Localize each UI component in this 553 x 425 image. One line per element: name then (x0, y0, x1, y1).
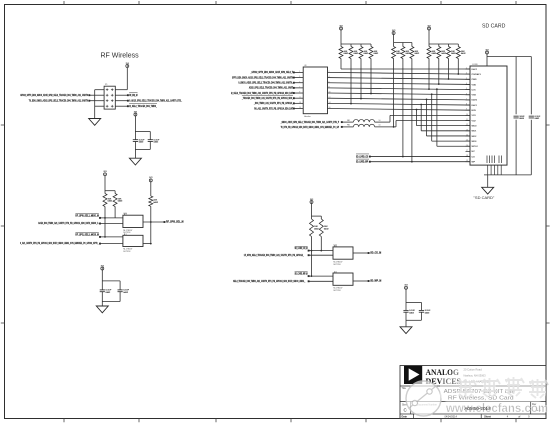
date and sheet row (402, 415, 531, 418)
svg-text:12: 12 (466, 124, 468, 126)
svg-text:0402: 0402 (154, 142, 159, 144)
wire net row2 long label (CD) (244, 253, 333, 257)
svg-text:CMD: CMD (472, 79, 477, 81)
svg-text:SD_CARD_CD_M: SD_CARD_CD_M (295, 247, 308, 250)
wire group2 leads down (394, 59, 413, 163)
svg-text:P1: P1 (105, 84, 108, 86)
svg-text:15: 15 (466, 140, 468, 142)
svg-text:CD/DAT3: CD/DAT3 (472, 73, 482, 76)
title text (402, 387, 516, 402)
capacitor C3 (100, 290, 112, 294)
power symbol VDD (RF header) (126, 63, 129, 68)
connector P1 RF header 2x4 (104, 84, 115, 109)
svg-text:3V3: 3V3 (427, 25, 430, 27)
svg-text:AD15_SPI2_SEL2_TRACE0_D04_TMR0: AD15_SPI2_SEL2_TRACE0_D04_TMR0_A21_UART (249, 86, 293, 90)
wire header rows 1 and 4 left to ground (95, 90, 104, 119)
svg-text:0_A21_UART0_RTS_PB_GPIO14_SD0_: 0_A21_UART0_RTS_PB_GPIO14_SD0_DAT2_SMC0_… (20, 241, 99, 245)
svg-text:1: 1 (126, 234, 127, 236)
svg-text:0_SMC0_AD15_SPI2_SEL2_TRACE0_D: 0_SMC0_AD15_SPI2_SEL2_TRACE0_D04_TMR0_A2… (238, 81, 293, 85)
svg-text:10: 10 (466, 114, 468, 116)
svg-text:17: 17 (466, 150, 468, 152)
svg-text:C: C (404, 408, 407, 413)
svg-text:VSS: VSS (472, 95, 477, 97)
power symbol (SD pullups group3) (427, 25, 430, 30)
svg-text:18: 18 (466, 155, 468, 157)
wire group3 leads to bus (428, 59, 459, 91)
power symbol (pullups U10/U11) (103, 171, 106, 176)
svg-text:I2_SEL2_TRACE0_D04_TMR0_A21_UA: I2_SEL2_TRACE0_D04_TMR0_A21_UART0_RTS_PB… (231, 91, 293, 95)
svg-text:WCLK: WCLK (472, 146, 479, 148)
wire net SD row1 (250, 70, 303, 74)
Analog Devices logo (404, 366, 422, 384)
svg-text:0805: 0805 (519, 118, 524, 120)
svg-text:SOT353: SOT353 (123, 251, 130, 253)
svg-text:3V3: 3V3 (485, 49, 488, 51)
wire cap bracket (bottom-right) (406, 289, 421, 327)
wire net row3 SD_WP_M (295, 272, 333, 277)
wire staircase to SD socket lower pins (416, 88, 470, 146)
wire power to header pin row1 right (115, 68, 127, 90)
pullup group1 resistors R20-R23 (339, 30, 379, 59)
svg-text:15: 15 (299, 107, 301, 109)
wire net SD row5 (231, 91, 303, 95)
svg-text:T0_RTS_PB_GPIO14_SD0_DAT2_SMC0: T0_RTS_PB_GPIO14_SD0_DAT2_SMC0_AMS1_SYS_… (281, 125, 340, 129)
svg-text:0402: 0402 (461, 53, 466, 55)
svg-text:of: of (518, 415, 520, 418)
buffer U10 (123, 213, 143, 234)
power symbol (CD/WP pullups) (310, 199, 313, 204)
svg-text:VD2: VD2 (472, 120, 477, 122)
svg-text:DAT1: DAT1 (472, 104, 478, 107)
svg-text:U12: U12 (333, 245, 336, 247)
svg-text:10: 10 (379, 125, 381, 127)
svg-text:10: 10 (379, 120, 381, 122)
svg-text:T0_BD0_SMC0_AD15_SPI2_SEL2_TRA: T0_BD0_SMC0_AD15_SPI2_SEL2_TRACE0_D04_TM… (29, 99, 89, 103)
title block frame (400, 366, 546, 419)
svg-text:16: 16 (466, 145, 468, 147)
wire net RF MOSI into header row2 left (20, 93, 104, 97)
svg-text:4: 4 (466, 83, 467, 85)
svg-text:WD0: WD0 (472, 125, 478, 127)
ground (SD socket) (482, 187, 494, 194)
wire net RF MISO into header row3 left (29, 99, 104, 103)
wire net VDAT2 with ferrite bead FB1 (280, 115, 470, 124)
svg-text:12: 12 (329, 97, 331, 99)
svg-text:I2_SEL2_TRACE0_D04_TMR0_: I2_SEL2_TRACE0_D04_TMR0_ (129, 104, 157, 108)
power symbol (bottom-right cap) (404, 285, 407, 290)
svg-text:CON9: CON9 (472, 64, 478, 66)
wire net RF_SPI_SEL header row2 right (115, 93, 137, 98)
svg-text:Header: Header (304, 116, 311, 118)
wire cap bracket (RF decoupling) (135, 116, 150, 158)
connector CON9 SD card socket (466, 64, 508, 165)
capacitor C5 10UF (514, 116, 526, 120)
svg-text:RSV: RSV (472, 110, 477, 112)
svg-text:14: 14 (329, 102, 331, 104)
power symbol (RF decoupling) (134, 111, 137, 116)
svg-text:2: 2 (466, 73, 467, 75)
svg-text:RF Wireless: RF Wireless (101, 53, 140, 60)
wire net RF SPT right row3 (115, 99, 182, 103)
svg-text:_SMC0_AD15_SPI2_SEL2_TRACE0_D0: _SMC0_AD15_SPI2_SEL2_TRACE0_D04_TMR0_A21… (280, 120, 339, 124)
svg-text:3V3: 3V3 (126, 63, 129, 65)
wire R32 lead to row1 (320, 237, 322, 252)
svg-text:R0_A21_UART0_RTS_PB_GPIO14_SD0: R0_A21_UART0_RTS_PB_GPIO14_SD0_DAT (254, 106, 293, 110)
svg-text:0402: 0402 (415, 53, 420, 55)
svg-text:3V3: 3V3 (101, 265, 104, 267)
svg-text:CD: CD (472, 156, 476, 158)
svg-text:7: 7 (299, 86, 300, 88)
pullup group2 resistors R24-R26 (392, 35, 420, 59)
svg-text:ACE0_D04_TMR0_A21_UART0_RTS_PB: ACE0_D04_TMR0_A21_UART0_RTS_PB_GPIO14_SD… (38, 221, 98, 225)
svg-text:0402: 0402 (106, 292, 111, 294)
wire net SD row8 (254, 106, 303, 110)
svg-text:04/04/2014: 04/04/2014 (444, 415, 457, 418)
svg-text:WD3: WD3 (472, 141, 478, 143)
resistor R10 10K (103, 194, 113, 207)
svg-text:RF_IRQ_M: RF_IRQ_M (129, 94, 137, 97)
svg-text:VDD: VDD (472, 84, 477, 86)
svg-text:0402: 0402 (139, 142, 144, 144)
buffer U12 (333, 245, 353, 266)
connector J8 header (SD interface) (303, 65, 327, 118)
watermark www.elecfans.com (445, 401, 548, 415)
power symbol (SD pullups group2) (392, 30, 395, 35)
svg-text:_D04_TMR0_A21_UART0_RTS_PB_GPI: _D04_TMR0_A21_UART0_RTS_PB_GPIO14_ (253, 101, 293, 105)
svg-text:SD_CD_M: SD_CD_M (370, 252, 381, 255)
svg-text:19: 19 (466, 160, 468, 162)
svg-text:J8: J8 (304, 65, 307, 67)
power symbol (pullup R12) (149, 177, 152, 182)
wire net row2 long label (38, 221, 123, 225)
power symbol (SD socket VDD) (485, 49, 488, 54)
svg-text:0402: 0402 (535, 118, 540, 120)
svg-text:Sheet: Sheet (484, 415, 491, 418)
svg-text:FB2: FB2 (347, 125, 350, 127)
svg-text:DAT2: DAT2 (472, 68, 478, 71)
svg-text:0402: 0402 (123, 292, 128, 294)
svg-text:RF_SPI1_SEL2_MOSI_M: RF_SPI1_SEL2_MOSI_M (75, 233, 98, 236)
wire U11 output loop (143, 222, 152, 245)
svg-text:0402: 0402 (324, 228, 329, 230)
svg-text:GPIO2_SPT0_BD0_SMC0_AD15_SPI2_: GPIO2_SPT0_BD0_SMC0_AD15_SPI2_SEL2_TRACE… (20, 93, 88, 97)
svg-text:0402: 0402 (108, 201, 113, 203)
svg-text:FB1: FB1 (347, 120, 350, 122)
capacitor C4 (118, 290, 130, 294)
svg-text:3V3: 3V3 (392, 30, 395, 32)
svg-text:11: 11 (299, 97, 301, 99)
svg-text:9: 9 (466, 109, 467, 111)
wire cap bracket (bottom-left) (102, 270, 120, 306)
svg-text:SD_CARD_CD: SD_CARD_CD (356, 155, 368, 158)
svg-text:9: 9 (299, 92, 300, 94)
svg-text:6: 6 (329, 81, 330, 83)
size and document number row (402, 403, 541, 413)
ground (bottom-right cap) (400, 327, 412, 334)
wire group1 leads to bus (341, 59, 470, 105)
svg-text:13: 13 (299, 102, 301, 104)
svg-text:WD2: WD2 (472, 136, 478, 138)
Analog Devices wordmark (426, 368, 462, 386)
wire net SD_CD to socket (356, 154, 470, 158)
svg-text:3V3: 3V3 (404, 285, 407, 287)
svg-text:_TRACE0_D04_TMR0_A21_UART0_RTS: _TRACE0_D04_TMR0_A21_UART0_RTS_PB_GPIO14… (241, 96, 293, 100)
svg-text:0402: 0402 (425, 312, 430, 314)
resistor R12 10K (149, 182, 159, 206)
capacitor C6 0.1UF (529, 116, 541, 120)
svg-text:Title: Title (402, 387, 407, 390)
wire net row4 long label (WP) (233, 279, 333, 283)
wire U10 output to RF_SPI_CS (143, 206, 184, 223)
wire net row4 long label (20, 241, 123, 245)
svg-text:U10: U10 (123, 213, 126, 215)
wire net row3 (RF_SPI1_SEL_M) (75, 233, 123, 238)
svg-text:3V3: 3V3 (149, 177, 152, 179)
capacitor C1 0.1UF (133, 139, 145, 143)
svg-text:SEL2_TRACE0_D04_TMR0_A21_UART0: SEL2_TRACE0_D04_TMR0_A21_UART0_RTS_PB_GP… (233, 279, 306, 283)
wire net VDAT1 with ferrite bead FB2 (281, 121, 470, 129)
svg-text:www.elecfans.com: www.elecfans.com (445, 401, 548, 415)
svg-text:SD_CARD_WP: SD_CARD_WP (356, 161, 368, 164)
svg-text:3V3: 3V3 (103, 171, 106, 173)
wire R31 lead to rows (311, 237, 313, 278)
wire net SD row4 (249, 86, 303, 90)
svg-text:0402: 0402 (314, 228, 319, 230)
svg-text:15_SPI2_SEL2_TRACE0_D04_TMR0_A: 15_SPI2_SEL2_TRACE0_D04_TMR0_A21_UART0_R… (244, 253, 304, 257)
svg-text:5: 5 (466, 88, 467, 90)
svg-text:16: 16 (329, 107, 331, 109)
svg-text:SD_CARD_WP_M: SD_CARD_WP_M (295, 273, 308, 276)
capacitor C8 (419, 310, 431, 314)
svg-text:SD CARD: SD CARD (482, 24, 506, 30)
svg-text:Date: Date (402, 415, 408, 418)
svg-text:1: 1 (466, 68, 467, 70)
svg-text:WD1: WD1 (472, 131, 478, 133)
wire U13 output to SD_WP (353, 280, 381, 283)
svg-text:RF_SPI0_SEL_M: RF_SPI0_SEL_M (166, 221, 184, 224)
wire pullup bar (center-bottom) (312, 204, 322, 220)
svg-text:RF_SPI0_SEL1_MISO_M: RF_SPI0_SEL1_MISO_M (75, 214, 98, 217)
capacitor C2 0.1UF (148, 139, 160, 143)
wire SD VDD rail and cap rails (487, 54, 531, 175)
svg-text:3V3: 3V3 (339, 25, 342, 27)
ADI address lines (464, 367, 489, 383)
wire net SD row6 (241, 96, 303, 100)
svg-text:2: 2 (329, 71, 330, 73)
ground (RF decoupling) (129, 158, 141, 165)
svg-text:WP: WP (472, 162, 476, 164)
svg-text:3: 3 (299, 76, 300, 78)
svg-text:DAT0: DAT0 (472, 99, 478, 102)
svg-text:"SD CARD": "SD CARD" (474, 195, 495, 200)
buffer U13 (333, 271, 353, 292)
svg-text:0_AD15_SPI2_SEL2_TRACE0_D04_TM: 0_AD15_SPI2_SEL2_TRACE0_D04_TMR0_A21_UAR… (129, 99, 182, 103)
svg-text:8: 8 (329, 86, 330, 88)
wire net row1 SD_CD_M (295, 246, 333, 251)
buffer U11 (123, 234, 143, 253)
wire net SD row7 (253, 101, 303, 105)
wire pullup bar (left) (105, 176, 115, 194)
resistor R32 10K (319, 219, 329, 237)
wire net SD_WP to socket (356, 159, 470, 163)
wire net row1 (RF_SPI_SEL_M) (75, 214, 123, 219)
svg-text:3: 3 (466, 78, 467, 80)
svg-text:7: 7 (466, 98, 467, 100)
svg-text:1: 1 (336, 271, 337, 273)
svg-text:4: 4 (507, 415, 509, 418)
wire net RF_SPI1_SEL right row4 (115, 104, 157, 109)
svg-text:CLK: CLK (472, 89, 477, 91)
svg-text:SD_WP_M: SD_WP_M (370, 280, 381, 283)
wire R11 lead into U10 (114, 207, 116, 218)
svg-text:SPT0_BD0_SMC0_AD15_SPI2_SEL2_T: SPT0_BD0_SMC0_AD15_SPI2_SEL2_TRACE0_D04_… (232, 75, 293, 79)
svg-text:0402: 0402 (118, 201, 123, 203)
svg-text:NC: NC (472, 151, 476, 153)
svg-text:1: 1 (299, 71, 300, 73)
svg-text:13: 13 (466, 129, 468, 131)
svg-text:8: 8 (466, 104, 467, 106)
wire U12 output to SD_CD (353, 252, 381, 255)
svg-text:11: 11 (466, 119, 468, 121)
watermark elecfans logo circle (406, 381, 441, 416)
resistor R11 10K (113, 194, 123, 207)
svg-text:SOT353: SOT353 (333, 264, 340, 266)
svg-text:A0M50-2013: A0M50-2013 (464, 406, 491, 411)
svg-text:10: 10 (329, 92, 331, 94)
capacitor C7 (403, 310, 415, 314)
svg-text:5: 5 (299, 81, 300, 83)
svg-text:9: 9 (528, 415, 530, 418)
wire net SD row2 (232, 75, 303, 79)
pullup group3 resistors R27-R30 (427, 30, 466, 59)
svg-text:0402: 0402 (153, 202, 158, 204)
power symbol (SD pullups group1) (339, 25, 342, 30)
wire net SD row3 (238, 81, 303, 85)
power symbol (bottom-left caps) (101, 265, 104, 270)
wire SD socket ground rail (484, 165, 531, 187)
wire bus rows J8 to SD socket (328, 71, 471, 110)
svg-text:0402: 0402 (374, 53, 379, 55)
svg-text:_GPIO2_SPT0_BD0_SMC0_AD15_SPI2: _GPIO2_SPT0_BD0_SMC0_AD15_SPI2_SEL2_T (250, 70, 294, 74)
svg-text:0402: 0402 (409, 312, 414, 314)
watermark chinese characters (457, 377, 548, 398)
svg-text:3V3: 3V3 (310, 199, 313, 201)
ground (RF header) (89, 119, 101, 126)
svg-text:3V3: 3V3 (134, 111, 137, 113)
svg-text:14: 14 (466, 134, 468, 136)
svg-text:SOT353: SOT353 (333, 290, 340, 292)
ground (bottom-left caps) (96, 306, 108, 313)
svg-text:VD1: VD1 (472, 115, 477, 117)
svg-text:6: 6 (466, 93, 467, 95)
svg-text:4: 4 (329, 76, 330, 78)
resistor R31 10K (310, 219, 320, 237)
wire R10 lead to rows (104, 207, 106, 238)
